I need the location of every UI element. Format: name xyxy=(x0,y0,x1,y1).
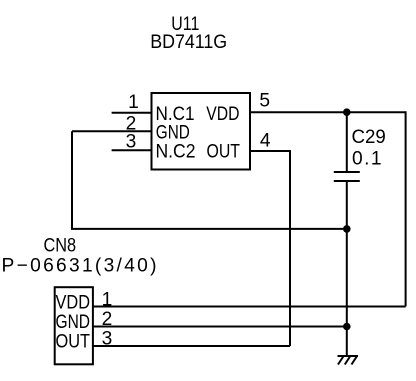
svg-text:GND: GND xyxy=(156,123,190,144)
svg-text:OUT: OUT xyxy=(207,142,241,163)
svg-text:P−06631(3/40): P−06631(3/40) xyxy=(2,256,157,277)
svg-text:1: 1 xyxy=(102,290,113,311)
svg-text:3: 3 xyxy=(102,328,113,349)
svg-text:4: 4 xyxy=(260,130,271,151)
svg-text:5: 5 xyxy=(259,91,270,112)
svg-text:1: 1 xyxy=(128,92,139,113)
svg-text:BD7411G: BD7411G xyxy=(150,32,227,53)
svg-text:GND: GND xyxy=(56,312,91,333)
svg-text:3: 3 xyxy=(126,131,137,152)
svg-text:VDD: VDD xyxy=(206,104,239,125)
svg-text:OUT: OUT xyxy=(56,332,91,353)
svg-text:0.1: 0.1 xyxy=(352,149,382,170)
svg-text:CN8: CN8 xyxy=(44,236,77,257)
svg-text:VDD: VDD xyxy=(56,293,91,314)
svg-text:2: 2 xyxy=(102,309,113,330)
svg-text:C29: C29 xyxy=(352,127,386,148)
svg-text:N.C2: N.C2 xyxy=(156,142,196,163)
